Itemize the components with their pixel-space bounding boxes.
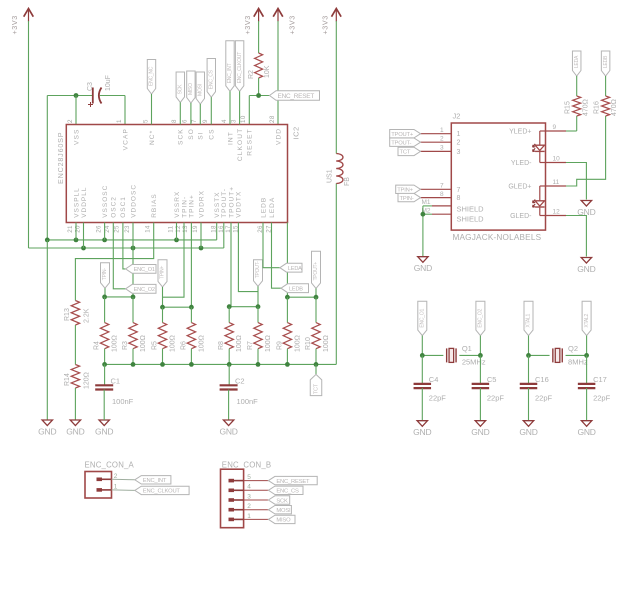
svg-text:ENC_NC: ENC_NC (149, 66, 155, 86)
svg-text:100Ω: 100Ω (236, 335, 243, 352)
svg-text:R16: R16 (593, 101, 600, 114)
svg-text:C1: C1 (111, 377, 121, 386)
svg-text:+3V3: +3V3 (320, 15, 329, 34)
svg-text:1: 1 (247, 513, 251, 520)
svg-text:LEDB: LEDB (603, 55, 609, 68)
svg-text:MISO: MISO (188, 83, 194, 95)
svg-text:8: 8 (440, 191, 444, 198)
svg-text:ENC_CON_B: ENC_CON_B (222, 461, 271, 470)
svg-text:FB: FB (344, 177, 351, 186)
svg-text:2: 2 (440, 135, 444, 142)
svg-text:R8: R8 (218, 341, 225, 350)
svg-text:100Ω: 100Ω (198, 335, 205, 352)
svg-text:100Ω: 100Ω (294, 335, 301, 352)
svg-text:VDD: VDD (275, 128, 282, 145)
svg-text:GND: GND (413, 427, 431, 437)
svg-text:1: 1 (457, 131, 461, 138)
svg-text:SI: SI (198, 131, 205, 139)
svg-text:GND: GND (577, 427, 595, 437)
svg-text:GND: GND (66, 426, 84, 436)
svg-text:Q1: Q1 (462, 344, 472, 353)
svg-text:TPIN-: TPIN- (400, 196, 414, 202)
svg-text:2: 2 (247, 503, 251, 510)
svg-text:22pF: 22pF (593, 394, 611, 403)
svg-text:R10: R10 (305, 337, 312, 350)
svg-text:3: 3 (230, 119, 237, 123)
svg-text:GND: GND (577, 264, 595, 274)
svg-text:VDDPLL: VDDPLL (81, 187, 88, 218)
svg-text:TPOUT+: TPOUT+ (313, 262, 319, 281)
svg-text:XTAL2: XTAL2 (584, 313, 590, 327)
svg-text:4: 4 (247, 484, 251, 491)
svg-text:470Ω: 470Ω (611, 99, 618, 116)
svg-text:R4: R4 (94, 341, 101, 350)
svg-text:LEDA: LEDA (269, 197, 276, 218)
svg-text:ENC_INT: ENC_INT (227, 63, 233, 83)
svg-text:+3V3: +3V3 (243, 15, 252, 34)
svg-text:7: 7 (440, 183, 444, 190)
svg-text:TPOUT-: TPOUT- (221, 188, 228, 218)
svg-text:22pF: 22pF (487, 394, 505, 403)
svg-text:R2: R2 (248, 70, 255, 79)
svg-text:ENC_RESET: ENC_RESET (276, 479, 310, 485)
svg-text:TPOUT-: TPOUT- (255, 261, 261, 278)
svg-text:YLED-: YLED- (511, 160, 532, 167)
svg-text:10: 10 (240, 115, 247, 123)
svg-text:OSC2: OSC2 (111, 196, 118, 218)
svg-text:GND: GND (414, 263, 432, 273)
svg-text:3: 3 (247, 493, 251, 500)
svg-text:C3: C3 (87, 82, 94, 91)
svg-text:SHIELD: SHIELD (457, 215, 485, 224)
svg-text:C16: C16 (535, 375, 549, 384)
svg-text:R5: R5 (151, 341, 158, 350)
svg-text:ENC_O2: ENC_O2 (478, 309, 484, 328)
svg-text:14: 14 (144, 225, 151, 233)
svg-text:ENC_CS: ENC_CS (276, 489, 299, 495)
svg-text:7: 7 (191, 119, 198, 123)
svg-text:VSSPLL: VSSPLL (73, 187, 80, 218)
svg-text:VSS: VSS (73, 129, 80, 146)
svg-text:100Ω: 100Ω (265, 335, 272, 352)
svg-text:120Ω: 120Ω (83, 372, 90, 389)
svg-text:R7: R7 (247, 341, 254, 350)
svg-text:TPIN+: TPIN+ (160, 266, 166, 279)
svg-text:VCAP: VCAP (122, 128, 129, 150)
svg-text:ENC_CON_A: ENC_CON_A (85, 461, 135, 470)
svg-text:VSSOSC: VSSOSC (102, 185, 109, 218)
svg-text:MOSI: MOSI (276, 508, 291, 514)
svg-text:TPOUT+: TPOUT+ (228, 186, 235, 218)
svg-text:100nF: 100nF (237, 397, 259, 406)
svg-text:SCK: SCK (177, 84, 183, 94)
svg-text:VDDRX: VDDRX (198, 190, 205, 218)
svg-text:19: 19 (192, 225, 199, 233)
svg-text:ENC_O2: ENC_O2 (134, 287, 155, 293)
svg-text:LEDA: LEDA (288, 266, 302, 272)
svg-text:9: 9 (553, 124, 557, 131)
svg-text:2: 2 (67, 119, 74, 123)
svg-text:+3V3: +3V3 (288, 15, 297, 34)
svg-text:21: 21 (67, 225, 74, 233)
svg-text:5: 5 (247, 474, 251, 481)
svg-text:M1: M1 (421, 199, 430, 206)
svg-text:XTAL1: XTAL1 (526, 313, 532, 327)
svg-text:100nF: 100nF (112, 397, 134, 406)
svg-text:C2: C2 (235, 377, 245, 386)
svg-text:CLKOUT: CLKOUT (237, 128, 244, 161)
svg-text:10K: 10K (264, 65, 271, 78)
svg-text:1: 1 (116, 119, 123, 123)
svg-text:GND: GND (95, 426, 113, 436)
svg-text:VDDTX: VDDTX (236, 191, 243, 218)
svg-text:+3V3: +3V3 (10, 15, 19, 34)
svg-text:ENC_CLKOUT: ENC_CLKOUT (237, 52, 243, 83)
svg-text:J2: J2 (453, 112, 461, 121)
svg-text:23: 23 (124, 225, 131, 233)
svg-text:GND: GND (471, 427, 489, 437)
svg-text:3: 3 (457, 149, 461, 156)
svg-text:GLED+: GLED+ (508, 184, 531, 191)
svg-text:100Ω: 100Ω (140, 335, 147, 352)
svg-text:GND: GND (38, 426, 56, 436)
svg-text:MISO: MISO (276, 518, 291, 524)
svg-text:11: 11 (167, 225, 174, 232)
svg-text:ENC_O1: ENC_O1 (134, 267, 155, 273)
svg-text:7: 7 (457, 187, 461, 194)
svg-text:8: 8 (171, 119, 178, 123)
svg-text:R15: R15 (564, 101, 571, 114)
svg-text:26: 26 (95, 225, 102, 233)
svg-text:4: 4 (221, 119, 228, 123)
svg-text:VSSTX: VSSTX (214, 191, 221, 217)
svg-text:MAGJACK-NOLABELS: MAGJACK-NOLABELS (453, 233, 542, 242)
svg-text:470Ω: 470Ω (582, 99, 589, 116)
svg-text:RESET: RESET (247, 128, 254, 155)
svg-text:YLED+: YLED+ (509, 129, 531, 136)
svg-text:3: 3 (440, 145, 444, 152)
svg-text:TPIN+: TPIN+ (189, 194, 196, 218)
svg-text:100Ω: 100Ω (169, 335, 176, 352)
svg-text:R3: R3 (122, 341, 129, 350)
svg-text:Q2: Q2 (568, 344, 578, 353)
svg-text:22pF: 22pF (429, 394, 447, 403)
svg-text:LEDB: LEDB (289, 287, 303, 293)
svg-text:13: 13 (182, 225, 189, 233)
svg-text:ENC_O1: ENC_O1 (419, 309, 425, 328)
svg-text:C5: C5 (487, 375, 497, 384)
svg-text:TCT: TCT (313, 383, 319, 394)
svg-text:VDDOSC: VDDOSC (130, 184, 137, 218)
svg-text:TCT: TCT (400, 150, 411, 156)
svg-text:22pF: 22pF (535, 394, 553, 403)
svg-text:10: 10 (553, 155, 561, 162)
svg-text:C17: C17 (593, 375, 607, 384)
svg-text:2.2K: 2.2K (83, 308, 90, 323)
svg-text:MOSI: MOSI (197, 84, 203, 96)
svg-text:ENC_INT: ENC_INT (143, 478, 167, 484)
svg-text:C4: C4 (429, 375, 439, 384)
svg-text:LEDA: LEDA (574, 55, 580, 68)
svg-text:CS: CS (209, 128, 216, 139)
svg-text:INT: INT (227, 131, 234, 145)
svg-text:100Ω: 100Ω (112, 335, 119, 352)
svg-text:ENC_RESET: ENC_RESET (278, 93, 315, 100)
svg-text:GND: GND (219, 426, 237, 436)
svg-text:NC*: NC* (149, 130, 156, 145)
svg-text:RBIAS: RBIAS (151, 193, 158, 218)
svg-text:ENC_CS: ENC_CS (208, 69, 214, 89)
svg-text:SCK: SCK (178, 128, 185, 145)
svg-text:12: 12 (175, 225, 182, 233)
svg-text:5: 5 (142, 119, 149, 123)
svg-text:25MHz: 25MHz (462, 358, 486, 367)
svg-text:12: 12 (553, 208, 561, 215)
svg-text:TPIN-: TPIN- (102, 268, 108, 280)
svg-text:TPOUT-: TPOUT- (391, 141, 411, 147)
svg-text:100Ω: 100Ω (323, 335, 330, 352)
svg-text:28: 28 (269, 115, 276, 123)
svg-text:GND: GND (519, 427, 537, 437)
svg-text:OSC1: OSC1 (120, 196, 127, 218)
svg-text:ENC_CLKOUT: ENC_CLKOUT (143, 489, 181, 495)
svg-text:20: 20 (74, 225, 81, 233)
svg-text:TPIN+: TPIN+ (397, 188, 413, 194)
svg-text:TPIN-: TPIN- (181, 196, 188, 218)
svg-text:ENC28J60SP: ENC28J60SP (56, 132, 65, 184)
svg-text:TPOUT+: TPOUT+ (391, 132, 414, 138)
svg-text:VSSRX: VSSRX (174, 191, 181, 218)
svg-text:9: 9 (202, 119, 209, 123)
svg-text:25: 25 (114, 225, 121, 233)
svg-text:R9: R9 (276, 341, 283, 350)
svg-text:R6: R6 (180, 341, 187, 350)
svg-text:SHIELD: SHIELD (457, 205, 485, 214)
svg-text:R14: R14 (64, 373, 71, 386)
svg-text:SO: SO (188, 128, 195, 140)
svg-text:LEDB: LEDB (260, 197, 267, 218)
svg-text:2: 2 (457, 140, 461, 147)
svg-text:10uF: 10uF (105, 75, 112, 91)
svg-text:SCK: SCK (276, 498, 288, 504)
svg-text:US1: US1 (326, 169, 333, 183)
svg-text:6: 6 (182, 119, 189, 123)
svg-text:GLED-: GLED- (510, 213, 532, 220)
svg-text:1: 1 (440, 127, 444, 134)
svg-text:11: 11 (553, 179, 560, 186)
svg-text:R13: R13 (64, 308, 71, 321)
svg-text:IC2: IC2 (292, 126, 301, 139)
svg-text:8MHz: 8MHz (568, 358, 588, 367)
svg-text:8: 8 (457, 195, 461, 202)
